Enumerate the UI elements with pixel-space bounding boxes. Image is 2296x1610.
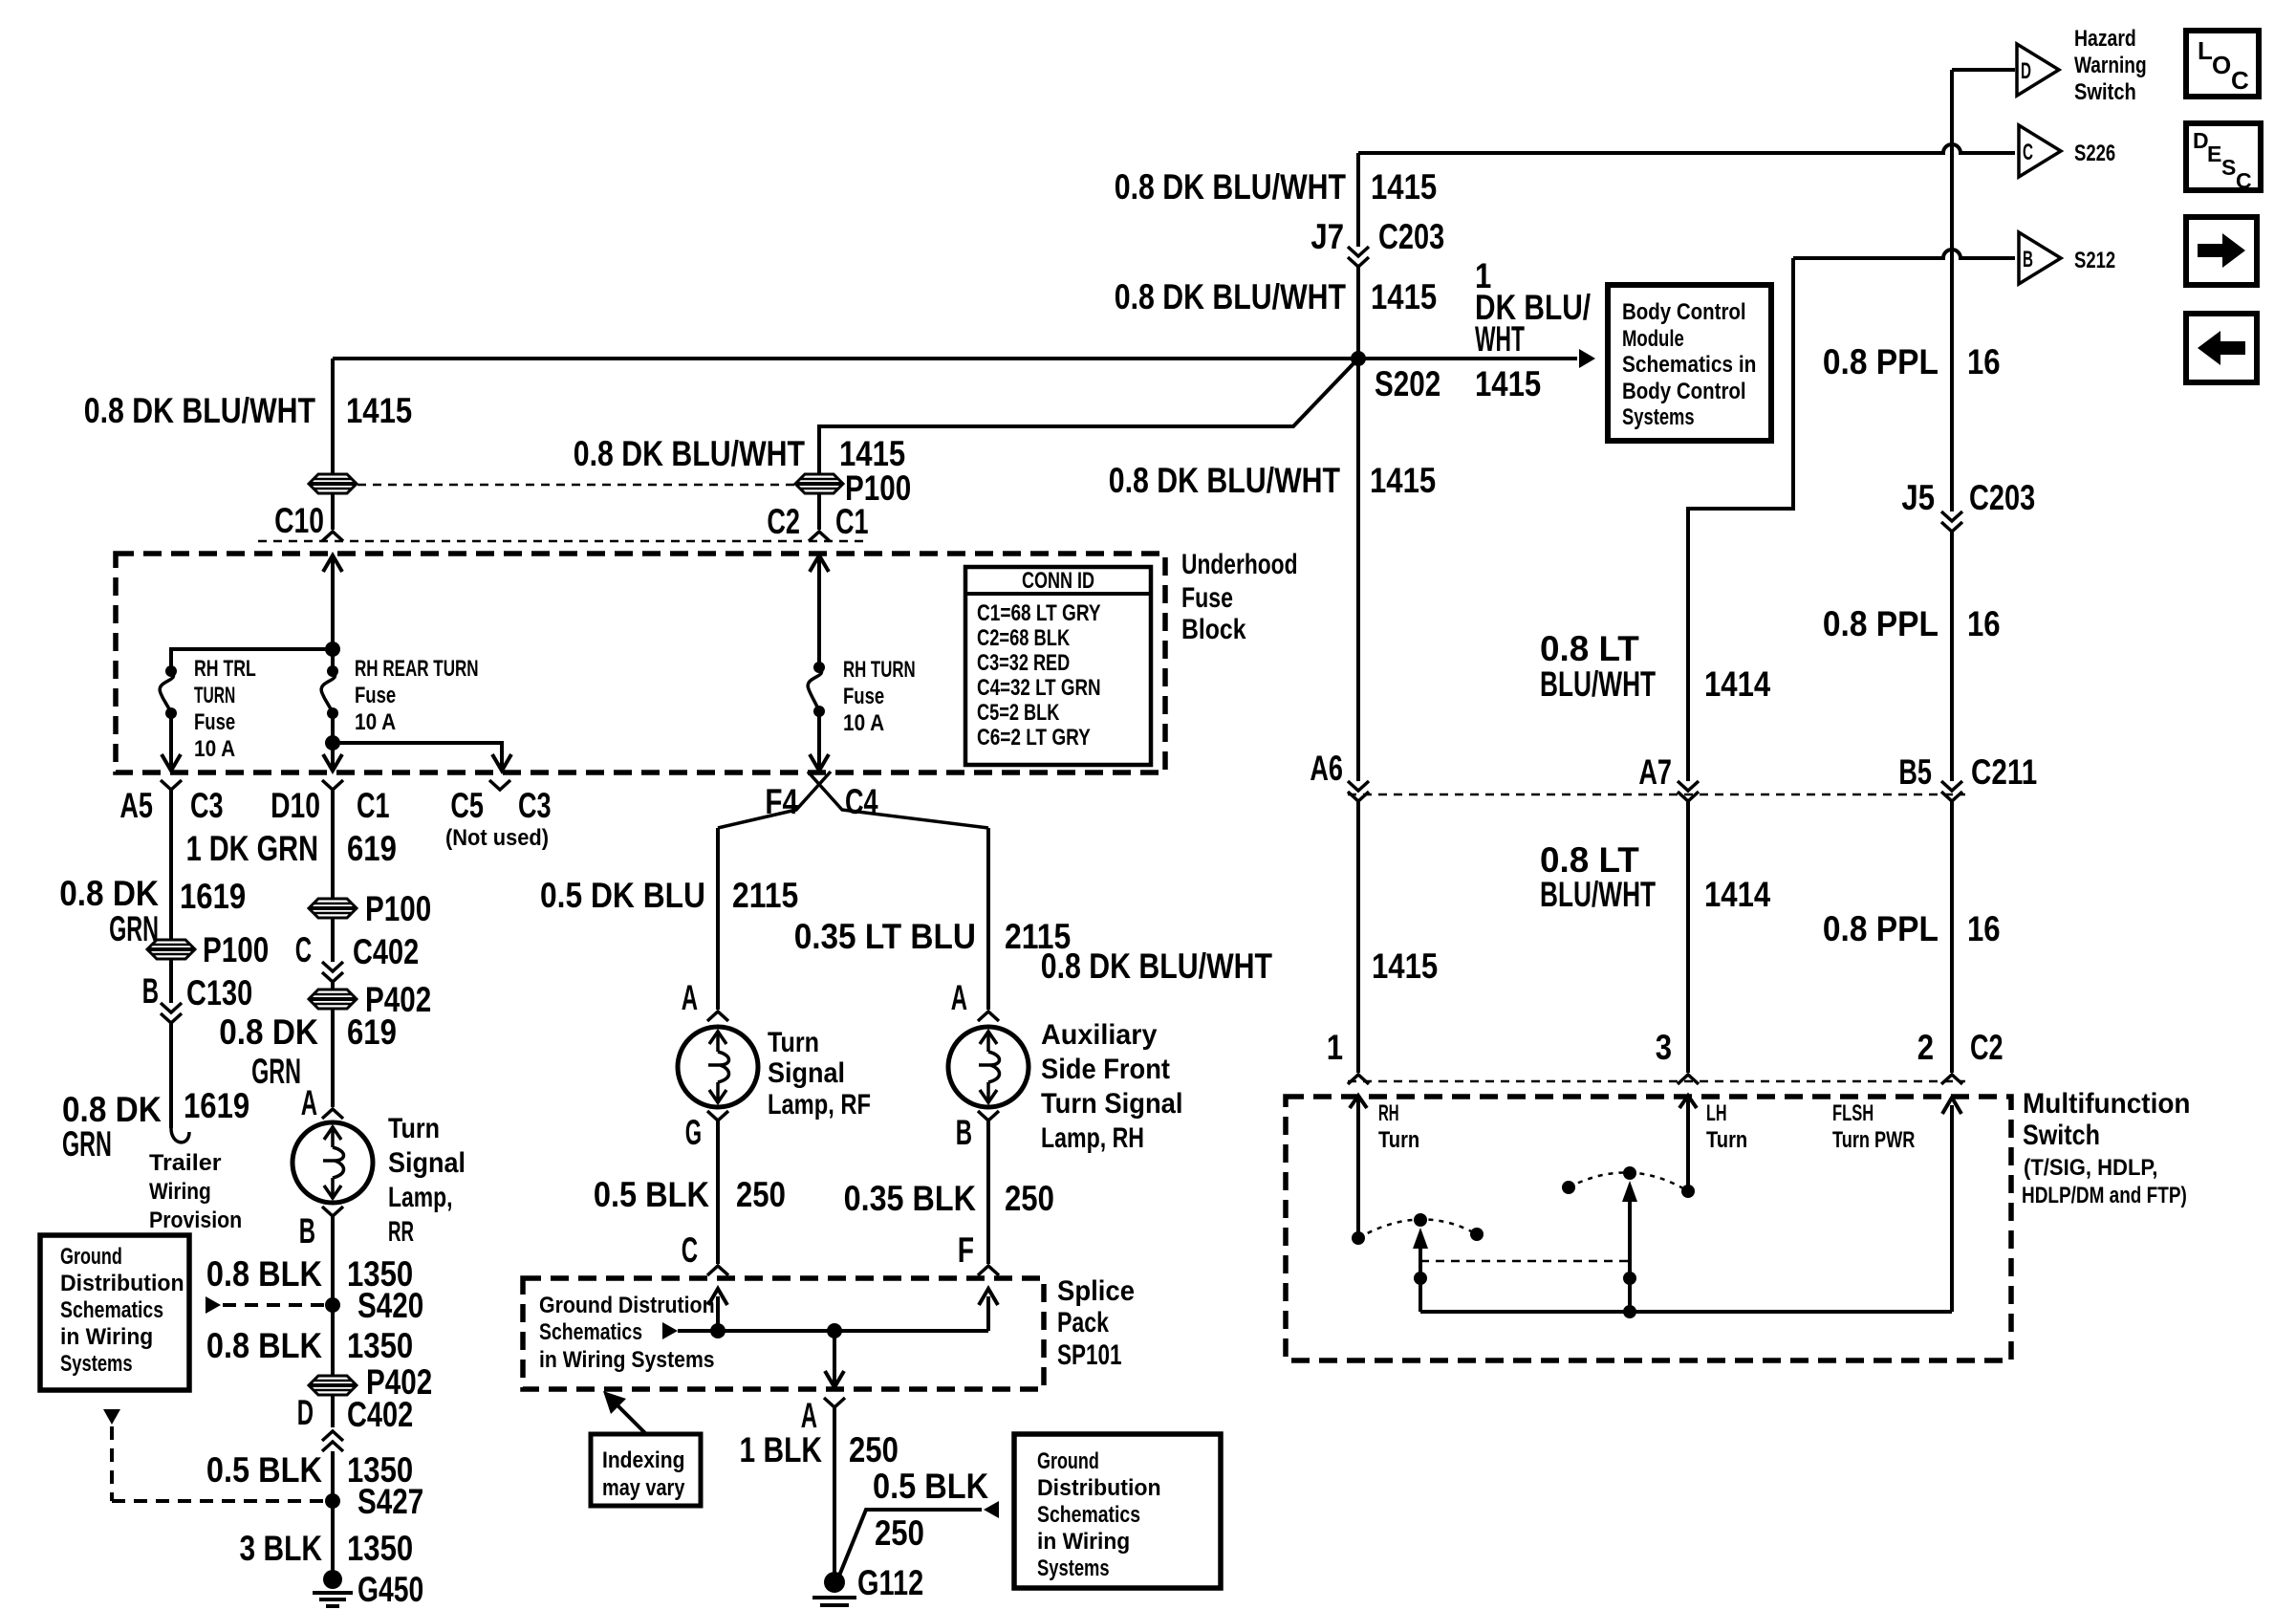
wire 250 (splice to G112) xyxy=(833,1407,836,1579)
connector splice A chevron xyxy=(824,1398,845,1407)
svg-text:C: C xyxy=(682,1230,698,1270)
svg-text:Turn: Turn xyxy=(768,1027,819,1058)
svg-text:F4: F4 xyxy=(765,782,798,821)
label D C402 xyxy=(297,1393,414,1434)
wire 0.8 PPL 16 (B5 to pin 2) xyxy=(1950,801,1954,1073)
trailer wiring provision hook xyxy=(171,1128,189,1142)
connector C2 pin1 chevron xyxy=(1348,1075,1369,1084)
ground G112 xyxy=(812,1572,856,1610)
svg-text:C6=2 LT GRY: C6=2 LT GRY xyxy=(977,725,1091,751)
connector lamp RF pin G chevron xyxy=(707,1111,728,1120)
fuse RH REAR TURN xyxy=(321,665,338,719)
connector dashed line P100 xyxy=(357,484,796,487)
wire 1619 (A5 to P100) xyxy=(169,790,173,1003)
label RH TRL TURN Fuse 10 A xyxy=(194,656,256,762)
svg-text:0.8 DK BLU/WHT: 0.8 DK BLU/WHT xyxy=(574,434,806,473)
connector C1 chevron xyxy=(809,532,830,541)
svg-text:3 BLK: 3 BLK xyxy=(240,1529,323,1568)
svg-text:LH: LH xyxy=(1706,1100,1727,1126)
legend box LOC xyxy=(2186,31,2259,97)
connector P402 grommet xyxy=(309,990,357,1009)
switch RH Turn terminal xyxy=(1350,1096,1367,1238)
connector C130 B double chevron xyxy=(161,1003,182,1012)
connector lamp RF pin A chevron xyxy=(707,1012,728,1021)
box Splice Pack SP101 (dashed) xyxy=(523,1278,1044,1389)
svg-text:C2=68 BLK: C2=68 BLK xyxy=(977,625,1071,651)
svg-text:1414: 1414 xyxy=(1704,875,1771,914)
svg-text:RR: RR xyxy=(388,1216,414,1248)
connector C2 dashed line xyxy=(1348,1080,1965,1083)
label 0.8 BLK 1350 (upper) xyxy=(206,1254,413,1294)
wire 1415 (J7 to S202) xyxy=(1356,267,1360,359)
svg-text:D: D xyxy=(2021,58,2031,84)
svg-text:B: B xyxy=(142,971,159,1011)
label 0.8 DK GRN 1619 (lower) xyxy=(62,1086,249,1164)
label 0.8 PPL 16 (middle) xyxy=(1823,604,2001,643)
svg-text:C: C xyxy=(2231,66,2249,95)
legend box left-arrow xyxy=(2186,314,2257,382)
label LH Turn xyxy=(1706,1100,1747,1153)
label Multifunction Switch xyxy=(2022,1088,2191,1208)
svg-text:0.8 PPL: 0.8 PPL xyxy=(1823,342,1939,381)
label 0.8 PPL 16 (upper) xyxy=(1823,342,2001,381)
svg-text:WHT: WHT xyxy=(1475,319,1525,359)
label 0.8 DK BLU/WHT 1415 (left) xyxy=(84,391,412,430)
connector lamp RH pin B chevron xyxy=(978,1111,999,1120)
svg-text:250: 250 xyxy=(875,1513,924,1553)
svg-text:A: A xyxy=(682,978,698,1017)
svg-text:2: 2 xyxy=(1917,1028,1934,1067)
svg-text:Fuse: Fuse xyxy=(843,684,884,709)
svg-text:0.8 DK: 0.8 DK xyxy=(59,874,159,913)
svg-text:S202: S202 xyxy=(1375,364,1440,403)
wire 2115 DK BLU (F4 to lamp RF) xyxy=(716,828,720,1010)
label Underhood Fuse Block xyxy=(1181,549,1298,645)
svg-text:Schematics: Schematics xyxy=(1037,1502,1140,1528)
wire 1415 (S202 to A6) xyxy=(1356,359,1360,781)
svg-text:0.8 PPL: 0.8 PPL xyxy=(1823,909,1939,948)
svg-text:1415: 1415 xyxy=(1475,364,1541,403)
label 0.8 DK BLU/WHT 1415 (second) xyxy=(1115,277,1437,316)
svg-text:Body Control: Body Control xyxy=(1622,379,1746,404)
svg-text:C5=2 BLK: C5=2 BLK xyxy=(977,700,1060,726)
wire hazard D feed line xyxy=(1952,68,2015,72)
svg-text:2115: 2115 xyxy=(1005,917,1071,956)
svg-text:Trailer: Trailer xyxy=(149,1150,222,1176)
label 0.5 BLK 250 (reference) xyxy=(873,1467,988,1553)
svg-text:Ground Distrution: Ground Distrution xyxy=(539,1293,715,1318)
label 0.8 LT BLU/WHT 1414 (lower) xyxy=(1540,840,1771,914)
label FLSH Turn PWR xyxy=(1832,1100,1915,1153)
svg-text:in Wiring Systems: in Wiring Systems xyxy=(539,1347,715,1373)
lamp Turn Signal RR xyxy=(292,1122,373,1203)
svg-text:250: 250 xyxy=(736,1175,786,1214)
svg-text:G112: G112 xyxy=(857,1563,923,1602)
svg-text:Lamp, RH: Lamp, RH xyxy=(1041,1122,1144,1154)
svg-text:0.8 BLK: 0.8 BLK xyxy=(206,1254,322,1294)
label J5 C203 xyxy=(1901,478,2035,517)
label J7 C203 xyxy=(1310,217,1444,256)
svg-text:16: 16 xyxy=(1967,342,2001,381)
label RH TURN Fuse 10 A xyxy=(843,657,916,736)
wire S212 B line with hop xyxy=(1793,250,2015,258)
svg-text:3: 3 xyxy=(1656,1028,1672,1067)
svg-text:250: 250 xyxy=(1005,1179,1054,1218)
label RH Turn xyxy=(1378,1100,1419,1153)
wire 1415 (A6 to pin 1) xyxy=(1356,801,1360,1073)
label 0.8 DK GRN 619 xyxy=(219,1012,397,1091)
label 0.8 DK BLU/WHT 1415 (above pin1) xyxy=(1041,946,1438,986)
label B5 C211 xyxy=(1898,752,2037,792)
svg-text:0.35 LT BLU: 0.35 LT BLU xyxy=(794,917,976,956)
svg-text:Fuse: Fuse xyxy=(355,683,396,708)
splice internal bus xyxy=(662,1289,998,1339)
wire S226 C line with hop xyxy=(1358,144,2015,153)
svg-text:1: 1 xyxy=(1327,1028,1343,1067)
svg-text:A7: A7 xyxy=(1638,752,1672,792)
label Turn Signal Lamp, RF xyxy=(768,1027,871,1120)
svg-text:D: D xyxy=(297,1393,314,1432)
connector C211 B5 double chevron xyxy=(1941,781,1962,791)
svg-text:0.8 PPL: 0.8 PPL xyxy=(1823,604,1939,643)
svg-text:B: B xyxy=(2023,247,2033,272)
connector P100 grommet (trailer) xyxy=(147,940,195,959)
svg-text:1415: 1415 xyxy=(839,434,905,473)
svg-text:Splice: Splice xyxy=(1057,1275,1135,1307)
switch wiper link dashed xyxy=(1420,1260,1630,1263)
svg-text:Signal: Signal xyxy=(388,1147,466,1179)
wire 0.8 LT BLU/WHT 1414 (A7 to pin 3) xyxy=(1686,801,1690,1073)
box Ground Distribution Schematics (left) xyxy=(40,1235,189,1390)
svg-text:GRN: GRN xyxy=(109,909,159,948)
wire 250 BLK (lamp RH to splice pack) xyxy=(986,1120,990,1264)
connector C211 A7 double chevron xyxy=(1678,781,1699,791)
label 1 DK BLU/ WHT xyxy=(1475,256,1591,359)
svg-text:1 BLK: 1 BLK xyxy=(740,1430,823,1469)
svg-text:Lamp,: Lamp, xyxy=(388,1182,453,1213)
label C C402 xyxy=(295,930,420,971)
wire fuseblock entry D10 arrow xyxy=(323,555,342,671)
svg-text:Block: Block xyxy=(1181,614,1246,645)
svg-text:0.8 DK: 0.8 DK xyxy=(62,1090,162,1129)
connector C5 chevron (not used) xyxy=(489,780,510,790)
switch LH wiper arm xyxy=(1622,1181,1637,1312)
wire 1350 (C402 to S427) xyxy=(331,1451,335,1501)
svg-text:C10: C10 xyxy=(274,501,324,540)
splice S420 dot xyxy=(325,1297,340,1313)
svg-text:BLU/WHT: BLU/WHT xyxy=(1540,664,1656,704)
svg-text:Provision: Provision xyxy=(149,1207,242,1233)
svg-text:G450: G450 xyxy=(357,1570,423,1609)
svg-text:S: S xyxy=(2221,155,2236,180)
connector C3 A5 chevron xyxy=(161,780,182,790)
wire C5 branch xyxy=(333,743,511,771)
connector C2 pin2 chevron xyxy=(1941,1075,1962,1084)
reference dashed S427 to ground box xyxy=(103,1409,323,1501)
svg-text:1350: 1350 xyxy=(347,1529,413,1568)
svg-text:10 A: 10 A xyxy=(843,710,884,736)
connector C203 J5 double chevron xyxy=(1941,511,1962,521)
svg-text:B5: B5 xyxy=(1898,752,1932,792)
ground G450 xyxy=(313,1570,353,1606)
svg-text:0.8 DK: 0.8 DK xyxy=(219,1012,318,1052)
label 0.8 PPL 16 (lower) xyxy=(1823,909,2001,948)
box Ground Distribution Schematics (right) xyxy=(1014,1434,1221,1588)
svg-text:1415: 1415 xyxy=(346,391,412,430)
svg-text:C: C xyxy=(2236,168,2252,193)
svg-text:GRN: GRN xyxy=(251,1052,301,1091)
svg-text:Warning: Warning xyxy=(2074,53,2147,78)
table CONN ID xyxy=(965,567,1151,765)
svg-text:GRN: GRN xyxy=(62,1124,112,1164)
svg-text:C203: C203 xyxy=(1378,217,1444,256)
wire 1350 (lamp RR to S420) xyxy=(331,1216,335,1305)
splice S202 junction dot xyxy=(1351,351,1366,366)
label 1 BLK 250 xyxy=(740,1430,899,1469)
svg-text:1414: 1414 xyxy=(1704,664,1771,704)
svg-text:C3: C3 xyxy=(518,786,552,825)
svg-text:Switch: Switch xyxy=(2023,1120,2100,1151)
svg-text:Turn: Turn xyxy=(388,1113,440,1144)
svg-text:Pack: Pack xyxy=(1057,1307,1109,1338)
svg-text:Schematics: Schematics xyxy=(60,1297,163,1323)
svg-text:C: C xyxy=(2023,140,2033,165)
svg-text:Multifunction: Multifunction xyxy=(2023,1088,2191,1120)
label S202 1415 xyxy=(1375,364,1541,403)
svg-text:O: O xyxy=(2212,51,2231,79)
wire RH TURN fuse output xyxy=(810,711,829,771)
svg-text:0.5 BLK: 0.5 BLK xyxy=(594,1175,709,1214)
wire 2115 LT BLU (C4 to lamp RH) xyxy=(986,828,990,1010)
svg-text:0.8 LT: 0.8 LT xyxy=(1540,840,1639,880)
arrow into BCM box xyxy=(1579,349,1595,368)
wire S202 diagonal branch xyxy=(819,359,1358,530)
reference arrow Indexing to splice box xyxy=(603,1391,646,1434)
label C5 C3 xyxy=(450,786,551,825)
label 1 DK GRN 619 xyxy=(186,829,397,868)
off-page connector triangle C (S226) xyxy=(2019,125,2061,177)
svg-text:A: A xyxy=(301,1083,317,1122)
connector P100 grommet (619) xyxy=(309,899,357,918)
svg-text:in Wiring: in Wiring xyxy=(60,1324,153,1350)
svg-text:0.8 DK BLU/WHT: 0.8 DK BLU/WHT xyxy=(1041,946,1273,986)
wire 1415 main horizontal xyxy=(333,357,1577,360)
svg-text:16: 16 xyxy=(1967,909,2001,948)
svg-text:Fuse: Fuse xyxy=(1181,582,1233,614)
wire 0.8 PPL 16 (J5 to B5) xyxy=(1950,532,1954,781)
connector C1 D10 chevron xyxy=(322,780,343,790)
svg-text:C3: C3 xyxy=(190,786,224,825)
svg-text:619: 619 xyxy=(347,1012,397,1052)
svg-text:Systems: Systems xyxy=(1622,404,1695,430)
wire 0.8 PPL 16 vertical (D to J5) xyxy=(1950,70,1954,511)
fuse RH TRL TURN xyxy=(160,665,177,719)
wire RH TRL branch xyxy=(171,649,333,671)
svg-text:0.8 BLK: 0.8 BLK xyxy=(206,1326,322,1365)
svg-text:1415: 1415 xyxy=(1372,946,1438,986)
svg-text:Underhood: Underhood xyxy=(1181,549,1298,580)
fuse RH TURN xyxy=(808,662,825,717)
svg-text:Distribution: Distribution xyxy=(1037,1475,1161,1501)
svg-text:C4=32 LT GRN: C4=32 LT GRN xyxy=(977,675,1101,701)
svg-text:B: B xyxy=(956,1113,972,1152)
box Underhood Fuse Block (dashed) xyxy=(116,554,1165,772)
svg-text:1619: 1619 xyxy=(180,877,246,916)
svg-text:C4: C4 xyxy=(845,782,878,821)
splice ground exit arrow xyxy=(825,1331,844,1387)
wire 1350 (S427 to G450) xyxy=(331,1501,335,1579)
box Multifunction Switch (dashed) xyxy=(1286,1097,2011,1360)
label Turn Signal Lamp, RR xyxy=(388,1113,466,1248)
svg-text:BLU/WHT: BLU/WHT xyxy=(1540,875,1656,914)
svg-text:G: G xyxy=(685,1113,702,1152)
svg-text:Ground: Ground xyxy=(1037,1448,1099,1474)
svg-text:A: A xyxy=(951,978,967,1017)
label 0.5 BLK 1350 xyxy=(206,1450,413,1490)
svg-text:J5: J5 xyxy=(1901,478,1935,517)
svg-text:Signal: Signal xyxy=(768,1057,845,1089)
splice S427 dot xyxy=(325,1493,340,1509)
connector lamp RR pin A chevron xyxy=(322,1109,343,1119)
svg-text:A5: A5 xyxy=(119,786,153,825)
label 0.35 BLK 250 xyxy=(844,1179,1054,1218)
svg-text:C402: C402 xyxy=(353,932,419,971)
svg-text:16: 16 xyxy=(1967,604,2001,643)
label 0.35 LT BLU 2115 xyxy=(794,917,1072,956)
connector C2 pin3 chevron xyxy=(1678,1075,1699,1084)
wire 619 (D10 to C402) xyxy=(331,790,335,962)
svg-text:C2: C2 xyxy=(767,502,800,541)
svg-text:Fuse: Fuse xyxy=(194,709,235,735)
junction dot C5 branch xyxy=(325,735,340,751)
svg-text:0.5 DK BLU: 0.5 DK BLU xyxy=(540,876,705,915)
svg-text:1350: 1350 xyxy=(347,1326,413,1365)
svg-text:B: B xyxy=(299,1211,315,1251)
switch LH contact dots and arc xyxy=(1562,1166,1695,1198)
svg-text:SP101: SP101 xyxy=(1057,1339,1122,1371)
svg-text:S226: S226 xyxy=(2074,141,2115,166)
label RH REAR TURN Fuse 10 A xyxy=(355,656,479,735)
svg-text:RH TRL: RH TRL xyxy=(194,656,256,682)
junction dot RH TRL branch xyxy=(325,642,340,657)
label 0.8 DK BLU/WHT 1415 (top) xyxy=(1115,167,1437,207)
label D10 C1 xyxy=(271,786,390,825)
svg-text:A6: A6 xyxy=(1310,749,1343,788)
svg-text:Ground: Ground xyxy=(60,1244,122,1270)
wire fuseblock entry C1 arrow xyxy=(810,555,829,667)
label 0.8 DK BLU/WHT 1415 (below S202) xyxy=(1109,461,1436,500)
svg-text:C1: C1 xyxy=(835,502,869,541)
connector C211 dashed line xyxy=(1348,794,1965,796)
svg-text:0.8 DK BLU/WHT: 0.8 DK BLU/WHT xyxy=(1115,277,1347,316)
connector C402 C double chevron xyxy=(322,962,343,971)
switch RH contact dots and arc xyxy=(1352,1213,1484,1245)
switch common bus xyxy=(1420,1098,1961,1318)
svg-text:Wiring: Wiring xyxy=(149,1179,211,1205)
svg-text:TURN: TURN xyxy=(194,683,235,708)
wire 1619 (C130 to trailer provision) xyxy=(169,1023,173,1128)
label C2 C1 xyxy=(767,502,868,541)
switch LH Turn terminal xyxy=(1679,1096,1697,1191)
connector splice pack F chevron xyxy=(978,1266,999,1275)
svg-text:CONN ID: CONN ID xyxy=(1022,568,1094,594)
lamp Auxiliary Side Front Turn Signal RH xyxy=(948,1027,1029,1107)
svg-text:1415: 1415 xyxy=(1371,277,1437,316)
box Body Control Module xyxy=(1608,285,1771,441)
svg-text:Module: Module xyxy=(1622,326,1684,352)
svg-text:C1=68 LT GRY: C1=68 LT GRY xyxy=(977,600,1101,626)
svg-text:F: F xyxy=(958,1230,974,1270)
svg-text:S427: S427 xyxy=(357,1482,423,1521)
svg-text:may vary: may vary xyxy=(602,1475,685,1501)
connector P100 grommet (right) xyxy=(795,474,843,493)
svg-text:10 A: 10 A xyxy=(194,736,235,762)
wire 1415 top segment (C line to J7) xyxy=(1356,153,1360,247)
wire RH TRL fuse output xyxy=(162,713,181,771)
svg-text:Switch: Switch xyxy=(2074,79,2136,105)
connector C203 J7 double chevron xyxy=(1348,247,1369,256)
svg-text:J7: J7 xyxy=(1310,217,1344,256)
label 0.5 BLK 250 xyxy=(594,1175,786,1214)
label 0.8 BLK 1350 (lower) xyxy=(206,1326,413,1365)
label 0.8 DK BLU/WHT 1415 (P100 branch) xyxy=(574,434,905,473)
label 0.8 LT BLU/WHT 1414 (upper) xyxy=(1540,629,1771,704)
svg-text:C130: C130 xyxy=(186,973,252,1012)
legend box right-arrow xyxy=(2186,217,2257,285)
svg-text:(T/SIG, HDLP,: (T/SIG, HDLP, xyxy=(2024,1155,2157,1181)
svg-text:Turn: Turn xyxy=(1378,1127,1419,1153)
label 3 BLK 1350 xyxy=(240,1529,414,1568)
label A5 C3 xyxy=(119,786,223,825)
lamp Turn Signal RF xyxy=(678,1027,758,1107)
connector C10 chevron xyxy=(322,532,343,541)
off-page connector triangle B (S212) xyxy=(2019,232,2061,284)
svg-text:0.35 BLK: 0.35 BLK xyxy=(844,1179,977,1218)
svg-text:Systems: Systems xyxy=(60,1351,133,1377)
label 1 DK GRN 619 -- 0.8 DK GRN 1619 xyxy=(59,874,246,948)
svg-text:D10: D10 xyxy=(271,786,320,825)
svg-text:C203: C203 xyxy=(1969,478,2035,517)
svg-text:Turn Signal: Turn Signal xyxy=(1041,1088,1183,1120)
wire 619 (C402 to lamp RR) xyxy=(331,982,335,1107)
svg-text:Auxiliary: Auxiliary xyxy=(1041,1019,1158,1051)
connector C211 A6 double chevron xyxy=(1348,781,1369,791)
switch RH wiper arm xyxy=(1413,1228,1428,1312)
connector lamp RR pin B chevron xyxy=(322,1207,343,1216)
svg-text:E: E xyxy=(2207,141,2221,166)
svg-text:Lamp, RF: Lamp, RF xyxy=(768,1089,871,1120)
svg-text:C2: C2 xyxy=(1970,1028,2004,1067)
connector C-row dashed line xyxy=(258,540,868,543)
svg-text:1619: 1619 xyxy=(184,1086,249,1125)
svg-text:1415: 1415 xyxy=(1371,167,1437,207)
label Hazard Warning Switch xyxy=(2074,26,2147,105)
svg-text:Turn PWR: Turn PWR xyxy=(1832,1127,1915,1153)
svg-text:L: L xyxy=(2198,36,2213,65)
wire 0.8 LT BLU/WHT 1414 (B jog) xyxy=(1688,258,1793,781)
label Splice Pack SP101 xyxy=(1057,1275,1135,1371)
label 0.5 DK BLU 2115 xyxy=(540,876,798,915)
svg-text:C211: C211 xyxy=(1971,752,2037,792)
svg-text:Indexing: Indexing xyxy=(602,1447,684,1473)
connector P402 grommet (lower) xyxy=(309,1376,357,1395)
svg-text:Schematics in: Schematics in xyxy=(1622,352,1756,378)
reference arrow S420 to ground box xyxy=(206,1296,325,1314)
svg-text:C3=32 RED: C3=32 RED xyxy=(977,650,1070,676)
label B C130 xyxy=(142,971,253,1012)
label Ground Distrution Schematics in Wiring Systems (splice) xyxy=(539,1293,715,1373)
wire 1415 left drop to C10 xyxy=(331,359,335,530)
